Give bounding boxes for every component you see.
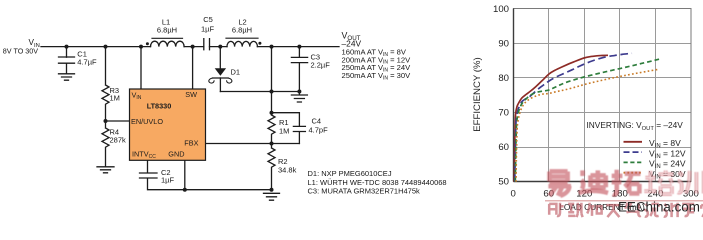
svg-text:C5: C5 <box>203 15 213 24</box>
svg-text:EFFICIENCY (%): EFFICIENCY (%) <box>472 57 483 131</box>
svg-text:6.8µH: 6.8µH <box>157 26 177 35</box>
svg-text:1µF: 1µF <box>201 25 214 34</box>
svg-text:FBX: FBX <box>184 138 198 147</box>
svg-text:LT8330: LT8330 <box>147 102 172 111</box>
svg-text:1M: 1M <box>279 127 289 136</box>
svg-text:INVERTING: VOUT = –24V: INVERTING: VOUT = –24V <box>587 120 684 132</box>
svg-text:1M: 1M <box>110 94 120 103</box>
svg-text:C3: MURATA GRM32ER71H475k: C3: MURATA GRM32ER71H475k <box>308 187 421 196</box>
svg-text:60: 60 <box>498 142 509 153</box>
svg-text:2.2µF: 2.2µF <box>311 61 331 70</box>
svg-text:250mA AT VIN = 30V: 250mA AT VIN = 30V <box>342 71 412 81</box>
svg-text:SW: SW <box>185 90 197 99</box>
svg-text:C4: C4 <box>312 117 322 126</box>
svg-text:70: 70 <box>498 108 509 119</box>
svg-text:80: 80 <box>498 73 509 84</box>
svg-text:50: 50 <box>498 177 509 188</box>
svg-text:1µF: 1µF <box>161 176 174 185</box>
svg-text:100: 100 <box>493 4 509 15</box>
svg-text:D1: D1 <box>231 68 241 77</box>
svg-text:287k: 287k <box>110 136 127 145</box>
svg-text:90: 90 <box>498 39 509 50</box>
svg-text:L1: WÜRTH WE-TDC 8038 74489440: L1: WÜRTH WE-TDC 8038 74489440068 <box>308 178 447 187</box>
svg-text:GND: GND <box>168 149 184 158</box>
svg-text:D1: NXP PMEG6010CEJ: D1: NXP PMEG6010CEJ <box>308 169 392 178</box>
svg-text:4.7µF: 4.7µF <box>77 58 97 67</box>
svg-text:EEChina.com: EEChina.com <box>618 200 700 215</box>
svg-text:4.7pF: 4.7pF <box>309 126 329 135</box>
svg-text:0: 0 <box>511 188 516 199</box>
svg-text:6.8µH: 6.8µH <box>232 26 252 35</box>
svg-text:EN/UVLO: EN/UVLO <box>131 117 163 126</box>
svg-text:34.8k: 34.8k <box>278 165 297 174</box>
svg-text:8V TO 30V: 8V TO 30V <box>3 47 39 56</box>
